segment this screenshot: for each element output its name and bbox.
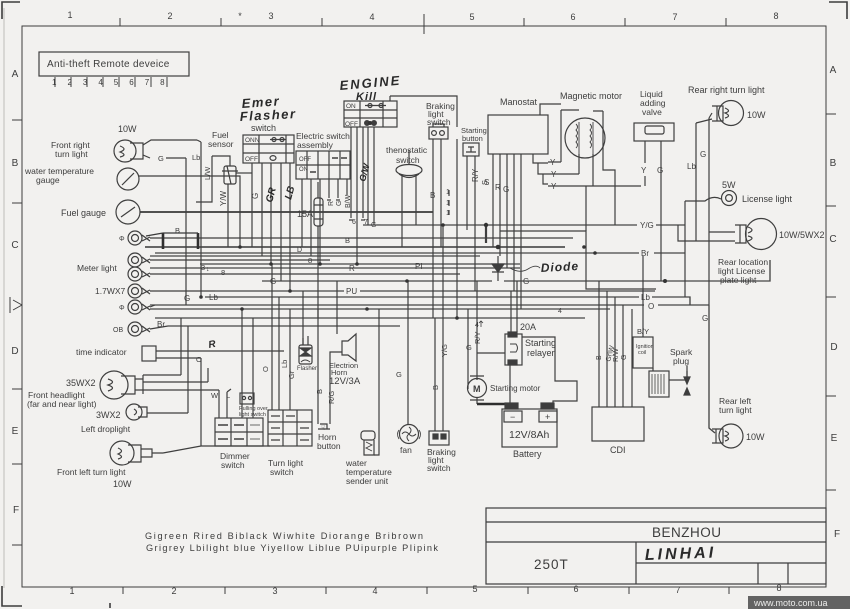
svg-text:Diode: Diode [540, 259, 579, 275]
svg-text:Battery: Battery [513, 449, 542, 459]
svg-text:4: 4 [475, 322, 479, 329]
svg-text:E: E [12, 426, 19, 437]
svg-text:PU: PU [346, 287, 357, 296]
svg-text:12V/3A: 12V/3A [329, 376, 361, 387]
svg-text:Y/G: Y/G [640, 221, 654, 230]
svg-text:8: 8 [221, 268, 225, 277]
svg-text:15A: 15A [297, 209, 313, 219]
svg-text:Gr: Gr [287, 370, 296, 379]
svg-text:Lb: Lb [687, 162, 696, 171]
svg-text:Left droplight: Left droplight [81, 424, 131, 434]
svg-text:5W: 5W [722, 180, 736, 190]
svg-text:3: 3 [201, 263, 205, 272]
svg-text:G: G [251, 193, 260, 199]
svg-text:10W: 10W [118, 124, 137, 134]
svg-text:ON: ON [346, 103, 356, 110]
svg-text:switch: switch [427, 463, 451, 473]
svg-text:A: A [12, 69, 19, 80]
svg-text:F: F [834, 529, 840, 540]
svg-text:250T: 250T [534, 557, 569, 572]
svg-text:35WX2: 35WX2 [66, 378, 96, 388]
svg-text:light switch: light switch [239, 412, 266, 418]
svg-text:R/W: R/W [613, 348, 620, 362]
svg-text:OB: OB [113, 327, 123, 334]
svg-text:1: 1 [446, 210, 450, 217]
svg-text:12V/8Ah: 12V/8Ah [509, 429, 549, 441]
svg-text:Starting motor: Starting motor [490, 384, 541, 393]
svg-text:assembly: assembly [297, 140, 334, 150]
svg-text:turn light: turn light [719, 405, 752, 415]
svg-text:Lb: Lb [192, 153, 200, 162]
svg-text:fan: fan [400, 445, 412, 455]
svg-text:4: 4 [372, 586, 377, 596]
svg-text:1: 1 [69, 586, 74, 596]
svg-text:D: D [297, 247, 302, 254]
svg-text:Meter light: Meter light [77, 263, 117, 273]
svg-text:switch: switch [251, 123, 276, 133]
svg-text:Flasher: Flasher [297, 366, 317, 372]
svg-text:S: S [480, 180, 489, 185]
svg-text:thenostatic: thenostatic [386, 145, 428, 155]
svg-text:5: 5 [469, 12, 474, 22]
svg-text:G−: G− [371, 222, 381, 229]
svg-text:Φ: Φ [119, 236, 125, 243]
svg-text:7: 7 [364, 219, 368, 226]
svg-text:G: G [184, 294, 190, 303]
svg-text:OFF: OFF [299, 157, 311, 163]
svg-text:6: 6 [570, 12, 575, 22]
svg-text:1.7WX7: 1.7WX7 [95, 286, 126, 296]
svg-text:Rear right turn light: Rear right turn light [688, 85, 765, 95]
svg-text:*: * [238, 11, 242, 21]
svg-text:R: R [328, 201, 335, 206]
svg-text:☟: ☟ [321, 424, 325, 432]
svg-text:L: L [226, 391, 230, 400]
svg-text:R: R [349, 264, 355, 273]
svg-text:R/Y: R/Y [471, 168, 480, 182]
svg-text:Y: Y [550, 158, 556, 167]
svg-text:sender unit: sender unit [346, 476, 389, 486]
svg-text:1: 1 [446, 200, 450, 207]
svg-text:1: 1 [67, 10, 72, 20]
svg-text:Manostat: Manostat [500, 97, 538, 107]
svg-text:B: B [345, 236, 350, 245]
svg-text:switch: switch [427, 117, 451, 127]
svg-text:Br: Br [641, 249, 649, 258]
svg-text:ON: ON [299, 167, 308, 173]
svg-text:Y: Y [551, 170, 557, 179]
svg-text:CDI: CDI [610, 445, 626, 455]
svg-text:OFF: OFF [345, 121, 358, 128]
svg-text:LINHAI: LINHAI [645, 545, 717, 564]
svg-text:20A: 20A [520, 322, 536, 332]
svg-text:10W: 10W [113, 479, 132, 489]
svg-text:gauge: gauge [36, 175, 60, 185]
svg-text:Starting: Starting [525, 338, 556, 348]
svg-text:G: G [621, 355, 628, 360]
svg-text:OFF: OFF [245, 156, 258, 163]
svg-text:F: F [13, 505, 19, 516]
svg-text:time indicator: time indicator [76, 347, 127, 357]
svg-text:G: G [270, 277, 276, 286]
svg-text:10W: 10W [747, 110, 766, 120]
svg-text:PI: PI [415, 262, 423, 271]
svg-text:G: G [657, 166, 663, 175]
svg-text:E: E [831, 433, 838, 444]
svg-text:B: B [315, 389, 324, 394]
svg-text:↓: ↓ [206, 266, 210, 273]
svg-text:Y: Y [551, 182, 557, 191]
svg-text:M: M [473, 384, 481, 394]
svg-text:10W/5WX2: 10W/5WX2 [779, 230, 825, 240]
svg-text:2: 2 [171, 586, 176, 596]
svg-text:BENZHOU: BENZHOU [652, 525, 722, 540]
svg-text:B: B [830, 158, 837, 169]
svg-text:plate light: plate light [720, 275, 757, 285]
svg-text:Y: Y [641, 166, 647, 175]
svg-text:turn light: turn light [55, 149, 88, 159]
svg-text:Magnetic motor: Magnetic motor [560, 91, 622, 101]
svg-text:Y/G: Y/G [440, 344, 449, 357]
svg-text:B: B [596, 355, 603, 360]
svg-text:5: 5 [472, 584, 477, 594]
svg-text:switch: switch [221, 460, 245, 470]
svg-text:−: − [510, 412, 515, 422]
svg-text:R/G: R/G [327, 391, 336, 405]
svg-text:button: button [462, 134, 483, 143]
svg-text:3: 3 [272, 586, 277, 596]
svg-text:12345678: 12345678 [52, 78, 176, 87]
svg-text:3WX2: 3WX2 [96, 410, 121, 420]
svg-text:G: G [158, 154, 164, 163]
svg-text:3: 3 [268, 11, 273, 21]
svg-text:G: G [396, 370, 402, 379]
svg-text:7: 7 [675, 585, 680, 595]
svg-text:R/Y: R/Y [473, 331, 482, 344]
svg-text:G: G [702, 314, 708, 323]
svg-text:4: 4 [558, 308, 562, 315]
svg-text:1: 1 [446, 189, 450, 196]
svg-text:2: 2 [167, 11, 172, 21]
svg-text:(far and near light): (far and near light) [27, 399, 97, 409]
svg-text:Gigreen Rired Biblack Wiwhite: Gigreen Rired Biblack Wiwhite Diorange B… [145, 531, 423, 541]
svg-text:G: G [700, 150, 706, 159]
svg-text:6: 6 [573, 584, 578, 594]
svg-text:6: 6 [352, 219, 356, 226]
svg-text:G: G [503, 185, 509, 194]
svg-text:B/Y: B/Y [637, 327, 649, 336]
svg-text:G: G [336, 201, 343, 206]
svg-text:R: R [495, 183, 501, 192]
svg-text:Fuel gauge: Fuel gauge [61, 208, 106, 218]
svg-text:switch: switch [396, 155, 420, 165]
svg-text:Grigrey Lbilight blue Yiyellow: Grigrey Lbilight blue Yiyellow Liblue PU… [146, 543, 438, 553]
svg-text:coil: coil [638, 350, 646, 356]
svg-text:B: B [12, 158, 19, 169]
svg-text:License light: License light [742, 194, 793, 204]
svg-text:button: button [317, 441, 341, 451]
svg-text:Lb: Lb [209, 293, 218, 302]
svg-text:7: 7 [672, 12, 677, 22]
svg-text:D: D [830, 342, 837, 353]
svg-text:switch: switch [270, 467, 294, 477]
svg-text:relayer: relayer [527, 348, 555, 358]
svg-text:G: G [466, 343, 472, 352]
svg-text:Flasher: Flasher [239, 106, 296, 124]
svg-text:C: C [829, 234, 836, 245]
svg-text:G: G [523, 277, 529, 286]
svg-text:+: + [545, 412, 550, 422]
svg-text:O: O [261, 366, 270, 372]
svg-text:Anti-theft Remote deveice: Anti-theft Remote deveice [47, 59, 170, 70]
svg-text:Φ: Φ [119, 305, 125, 312]
svg-text:4: 4 [369, 12, 374, 22]
svg-text:ONN: ONN [245, 137, 260, 144]
svg-text:Lb: Lb [280, 360, 289, 368]
svg-text:B/W: B/W [345, 194, 352, 208]
svg-text:8: 8 [308, 256, 312, 265]
svg-text:C: C [11, 240, 18, 251]
svg-text:O: O [648, 302, 654, 311]
svg-text:10W: 10W [746, 432, 765, 442]
svg-text:Kill: Kill [356, 91, 377, 103]
svg-text:plug: plug [673, 356, 689, 366]
svg-text:8: 8 [773, 11, 778, 21]
svg-text:B: B [431, 385, 440, 390]
svg-text:L/W: L/W [203, 166, 212, 180]
svg-text:valve: valve [642, 107, 662, 117]
svg-text:W: W [211, 391, 219, 400]
svg-text:B: B [430, 191, 435, 200]
svg-text:A: A [830, 65, 837, 76]
svg-text:sensor: sensor [208, 139, 234, 149]
svg-text:O: O [196, 355, 202, 364]
svg-text:www.moto.com.ua: www.moto.com.ua [753, 598, 828, 608]
svg-text:B: B [175, 226, 180, 235]
svg-text:Front left turn light: Front left turn light [57, 467, 126, 477]
svg-text:Y/W: Y/W [219, 190, 228, 206]
svg-text:D: D [11, 346, 18, 357]
svg-text:Br: Br [157, 320, 165, 329]
